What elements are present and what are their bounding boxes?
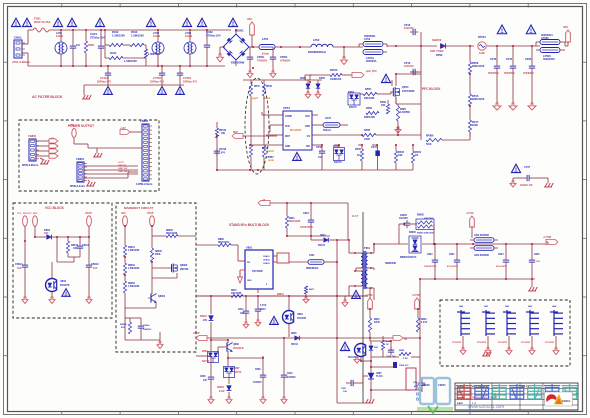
svg-text:ZDP1: ZDP1 xyxy=(300,77,307,80)
svg-text:RP06: RP06 xyxy=(366,107,373,110)
svg-text:9.1W: 9.1W xyxy=(219,391,225,393)
fuse FS01 xyxy=(33,17,50,33)
transformer pin marks xyxy=(348,239,372,289)
mosfet Q8060 xyxy=(152,263,189,278)
svg-text:ZD802: ZD802 xyxy=(217,387,225,389)
svg-text:RP08: RP08 xyxy=(364,129,371,132)
ground rake Ycap xyxy=(544,178,553,187)
snubber C8065 xyxy=(399,215,417,244)
svg-text:+12V: +12V xyxy=(120,127,126,130)
comb label 1 xyxy=(452,342,461,344)
svg-text:220R: 220R xyxy=(374,322,380,324)
svg-text:250Vac-471: 250Vac-471 xyxy=(150,79,165,83)
svg-text:UP01: UP01 xyxy=(283,106,290,110)
ground rake mid xyxy=(93,148,102,157)
comb component HS5 xyxy=(550,305,563,336)
capacitor C831 xyxy=(341,376,363,393)
capacitor CB019 xyxy=(86,237,99,297)
wire loop near C833 xyxy=(406,368,416,390)
diode D8065 xyxy=(400,232,421,259)
ground arrow PFC mid xyxy=(341,47,348,65)
earth triangle P2 xyxy=(526,25,536,34)
svg-text:4.7UF: 4.7UF xyxy=(260,304,267,307)
zener ZDP1 xyxy=(300,77,311,98)
resistor RP22 xyxy=(394,145,404,170)
watermark book logo xyxy=(416,378,453,413)
svg-text:CHA02: CHA02 xyxy=(263,258,270,261)
inductor LP04 upper xyxy=(359,42,383,48)
resistor RP03 xyxy=(249,145,275,157)
svg-text:R820: R820 xyxy=(374,319,380,321)
svg-text:RP0B8: RP0B8 xyxy=(426,136,434,138)
svg-text:FR104: FR104 xyxy=(291,343,299,346)
svg-text:C820: C820 xyxy=(427,254,433,256)
ground rake CN800 xyxy=(40,158,49,164)
svg-text:DP02: DP02 xyxy=(436,53,443,57)
svg-text:C831: C831 xyxy=(341,388,347,390)
svg-text:PC817B: PC817B xyxy=(297,317,306,320)
capacitor C821 xyxy=(447,244,460,279)
IC U801 stubs xyxy=(238,245,277,293)
svg-text:C813: C813 xyxy=(260,309,266,311)
red oval VCC_PRI xyxy=(17,213,38,226)
svg-text:1.5M/120B: 1.5M/120B xyxy=(128,286,140,288)
svg-text:6PIN-2.0mm: 6PIN-2.0mm xyxy=(70,184,86,188)
svg-text:VCCP: VCCP xyxy=(193,332,200,335)
capacitor C813 xyxy=(255,296,267,326)
ground arrow b3 xyxy=(260,397,266,404)
svg-text:24V: 24V xyxy=(203,319,208,322)
thermistor RT001 xyxy=(478,35,540,55)
op IC UP01 xyxy=(283,106,312,150)
zener ZD801 xyxy=(200,296,213,340)
capacitor CB014 xyxy=(15,241,28,297)
svg-text:CHA03: CHA03 xyxy=(263,262,270,265)
svg-text:910K: 910K xyxy=(472,124,478,127)
inductor LP05 upper xyxy=(536,40,560,47)
resistor R015 xyxy=(123,45,160,66)
wire bottom net xyxy=(196,338,420,366)
svg-text:SMA/120B: SMA/120B xyxy=(166,232,178,235)
svg-text:CP13: CP13 xyxy=(490,58,497,61)
resistor R823 xyxy=(416,309,427,332)
wire VCC node xyxy=(25,226,89,262)
resistor RP20 xyxy=(355,145,364,170)
earth triangle below CY2 xyxy=(158,85,167,94)
resistor R001 xyxy=(84,30,94,66)
svg-text:+5V: +5V xyxy=(50,138,54,140)
resistor R820 xyxy=(368,309,380,341)
svg-text:10um: 10um xyxy=(262,52,270,56)
warning triangle UP01 xyxy=(293,152,302,160)
svg-text:R823: R823 xyxy=(421,319,427,321)
wire mainbout mid xyxy=(125,302,156,330)
svg-text:+B: +B xyxy=(262,199,265,202)
svg-text:D806: D806 xyxy=(202,351,208,353)
capacitor CP01 xyxy=(247,47,268,78)
ground arrow VCC1 xyxy=(22,297,28,304)
svg-text:VCC_PRI VCC_SEC: VCC_PRI VCC_SEC xyxy=(17,213,38,215)
capacitor C823 xyxy=(496,244,509,279)
svg-text:LP005: LP005 xyxy=(541,36,549,40)
svg-text:R013: R013 xyxy=(131,30,138,34)
svg-text:CP002: CP002 xyxy=(280,56,288,59)
resistor RP09 xyxy=(380,100,390,114)
TL431 U805 xyxy=(363,360,383,397)
svg-text:T801: T801 xyxy=(364,246,370,250)
warning triangle U803 xyxy=(270,316,279,324)
ground arrow b2 xyxy=(226,397,232,404)
svg-text:QP04: QP04 xyxy=(402,86,409,89)
svg-text:104/50V: 104/50V xyxy=(287,376,296,379)
IC UP01 pin stubs xyxy=(277,115,318,145)
svg-text:SMA/1206: SMA/1206 xyxy=(218,241,230,244)
net flag VCCP left xyxy=(193,332,207,341)
ground bent arrow U801 xyxy=(238,270,243,283)
resistor RP08 xyxy=(468,46,484,74)
earth triangle T8 xyxy=(197,18,206,26)
diode D801 xyxy=(35,226,57,239)
capacitor CY007 xyxy=(513,166,548,187)
svg-text:6PIN-2.96mm: 6PIN-2.96mm xyxy=(22,163,39,167)
svg-text:CP018: CP018 xyxy=(219,149,227,151)
svg-text:CX: CX xyxy=(76,43,80,47)
ground arrow comb 3 xyxy=(506,336,512,355)
svg-text:C8012: C8012 xyxy=(82,244,90,247)
svg-text:D805: D805 xyxy=(291,333,297,335)
resistor R824 xyxy=(381,336,391,354)
svg-text:474/630V: 474/630V xyxy=(280,60,291,63)
svg-text:2.2K: 2.2K xyxy=(403,358,408,360)
svg-text:D803: D803 xyxy=(320,235,326,237)
text AC FILTER BLOCK xyxy=(32,95,63,99)
svg-text:R8061: R8061 xyxy=(128,247,135,249)
net flag VAC right xyxy=(560,25,570,50)
svg-text:275Vac-224: 275Vac-224 xyxy=(90,35,106,39)
svg-text:R012: R012 xyxy=(112,30,119,34)
snubber R8065 R8066 xyxy=(416,215,434,245)
wire IC left leads xyxy=(250,112,277,145)
warning triangle fb xyxy=(340,342,349,350)
svg-text:222/AC-CD: 222/AC-CD xyxy=(520,184,533,187)
svg-text:CP11: CP11 xyxy=(371,146,378,149)
inductor LP05 lower xyxy=(536,33,560,61)
resistor R815 xyxy=(196,290,368,298)
resistor RP010 xyxy=(310,69,342,81)
svg-text:ZCD: ZCD xyxy=(285,126,290,128)
capacitor C833 xyxy=(413,378,425,392)
earth triangle below CY3 xyxy=(176,85,185,94)
svg-text:360K: 360K xyxy=(155,254,161,256)
svg-text:STAND BYs MULTI BLOCK: STAND BYs MULTI BLOCK xyxy=(229,223,270,227)
IC U801 TNY266 xyxy=(245,246,273,290)
capacitor C810 xyxy=(281,356,296,397)
svg-text:C812: C812 xyxy=(238,309,244,311)
svg-text:2.4UF: 2.4UF xyxy=(421,321,428,324)
bridge rectifier BD001 xyxy=(223,29,254,67)
svg-text:FR104: FR104 xyxy=(318,244,326,247)
svg-text:1UF: 1UF xyxy=(17,267,22,270)
svg-text:+5.TVA: +5.TVA xyxy=(466,212,474,215)
capacitor CP02 xyxy=(270,47,291,78)
logo KONKA xyxy=(545,392,573,406)
svg-text:960K/1206: 960K/1206 xyxy=(472,65,485,68)
svg-text:15mH: 15mH xyxy=(153,34,160,38)
resistor RP016 xyxy=(215,122,226,170)
inductor LP04 lower xyxy=(363,34,387,63)
transformer primary winding xyxy=(337,240,363,296)
svg-text:1000UF/25V: 1000UF/25V xyxy=(424,266,437,268)
text PFC BLOCK xyxy=(422,87,441,91)
svg-text:FB: FB xyxy=(404,339,407,341)
capacitor CX03 xyxy=(204,30,221,66)
svg-text:VAC: VAC xyxy=(121,212,126,215)
svg-text:VCCP: VCCP xyxy=(147,212,154,215)
svg-text:14PIN-2.0mm: 14PIN-2.0mm xyxy=(136,182,153,186)
svg-text:RP20: RP20 xyxy=(355,148,362,151)
svg-text:MC33262: MC33262 xyxy=(290,128,302,132)
svg-text:CP18: CP18 xyxy=(316,146,323,149)
svg-text:D807: D807 xyxy=(234,368,240,370)
common-mode choke LF01 xyxy=(55,30,67,66)
wire AC top rail xyxy=(22,30,231,44)
svg-text:K4T/F960B: K4T/F960B xyxy=(402,90,415,93)
capacitor CP018 xyxy=(214,148,227,156)
resistor RP24 xyxy=(411,145,421,170)
svg-text:104/50V: 104/50V xyxy=(143,328,152,331)
svg-text:10K: 10K xyxy=(240,313,245,315)
svg-text:20R/120B: 20R/120B xyxy=(364,98,375,100)
wire diode rail xyxy=(374,244,443,250)
resistor RP17 xyxy=(468,106,478,137)
svg-text:3.3R: 3.3R xyxy=(479,51,485,55)
svg-text:102/1KV: 102/1KV xyxy=(399,218,408,220)
ground arrow VCC2 xyxy=(49,297,55,304)
svg-text:CN800: CN800 xyxy=(28,134,37,138)
svg-text:+5.TVB: +5.TVB xyxy=(412,295,420,297)
resistor R8010 xyxy=(66,237,78,257)
comb label 3 xyxy=(498,342,507,344)
resistor RP06 xyxy=(364,107,379,119)
resistor R012 xyxy=(105,30,123,47)
svg-text:C830 104: C830 104 xyxy=(386,355,396,358)
svg-text:GND 12V: GND 12V xyxy=(118,168,128,170)
svg-text:R815: R815 xyxy=(231,290,237,292)
svg-text:2N7002: 2N7002 xyxy=(180,268,189,271)
capacitor C812 xyxy=(238,296,249,328)
svg-text:ZD801: ZD801 xyxy=(200,316,208,318)
connector CN800 xyxy=(22,134,39,167)
ground arrow CP14 xyxy=(509,103,517,110)
svg-text:STV/STM: STV/STM xyxy=(521,342,530,344)
svg-text:RT001: RT001 xyxy=(478,35,486,39)
capacitor CY002 xyxy=(150,66,165,84)
svg-text:Q8061: Q8061 xyxy=(158,295,166,298)
svg-text:R014: R014 xyxy=(110,51,117,55)
svg-text:100UF/400V: 100UF/400V xyxy=(300,226,313,229)
svg-text:BAV70: BAV70 xyxy=(334,161,342,164)
dual diode D807 xyxy=(224,367,242,378)
common-mode choke LF02 xyxy=(152,30,164,66)
diode D812 xyxy=(369,341,379,360)
svg-text:C808: C808 xyxy=(200,376,206,378)
svg-text:RP07: RP07 xyxy=(254,86,260,88)
svg-text:RCP: RCP xyxy=(233,132,238,134)
wire +B rail xyxy=(270,203,348,240)
svg-text:MBR20100CTG: MBR20100CTG xyxy=(400,257,417,259)
svg-text:L801: L801 xyxy=(309,254,315,257)
connector CN01 xyxy=(12,36,30,65)
svg-text:Q802: Q802 xyxy=(233,343,240,346)
comb label 2 xyxy=(477,342,486,344)
svg-text:GND 5V: GND 5V xyxy=(118,165,127,167)
resistor R013 xyxy=(123,43,144,46)
svg-text:10V/24V: 10V/24V xyxy=(404,65,414,68)
comb component HS3 xyxy=(503,306,516,336)
svg-text:R8065: R8065 xyxy=(155,251,162,253)
svg-text:CN802: CN802 xyxy=(140,119,149,123)
resistor RP02 xyxy=(262,80,272,100)
svg-text:C804: C804 xyxy=(303,212,309,215)
text STANDBY xyxy=(229,223,270,227)
red oval VCCP xyxy=(85,212,92,226)
transistor Q8061 xyxy=(148,292,166,303)
ground arrow CP00 xyxy=(528,103,536,110)
svg-text:R8062: R8062 xyxy=(128,265,135,267)
capacitor CP18 xyxy=(316,145,325,170)
isolation boundary line xyxy=(352,212,363,403)
ellipse highlight xyxy=(245,78,269,174)
svg-text:PC817B: PC817B xyxy=(60,284,70,287)
svg-text:VCC BLOCK: VCC BLOCK xyxy=(45,206,65,210)
svg-text:CB019: CB019 xyxy=(91,263,99,266)
capacitor CY003 xyxy=(177,66,198,84)
svg-text:2SC9014L: 2SC9014L xyxy=(233,347,245,350)
earth triangle T3 xyxy=(53,18,62,26)
warning triangle xfmr xyxy=(352,290,361,298)
svg-text:BAV70: BAV70 xyxy=(349,106,357,109)
capacitor C804 xyxy=(300,203,314,236)
resistor R825 xyxy=(399,350,411,360)
resistor R8062 xyxy=(123,257,139,275)
svg-text:C836 N.C: C836 N.C xyxy=(399,365,409,367)
comb component HS1 xyxy=(457,306,470,336)
capacitor C806 red xyxy=(277,253,308,296)
svg-text:1.5M/120B: 1.5M/120B xyxy=(128,268,140,270)
earth triangle T6 xyxy=(146,18,155,26)
inductor L801 xyxy=(306,254,337,270)
capacitor C8012 xyxy=(68,237,90,257)
ground arrow b4 xyxy=(281,397,287,404)
dashed block cap bank xyxy=(440,300,570,366)
svg-text:GND: GND xyxy=(285,146,290,148)
ground rake sec xyxy=(528,279,537,291)
svg-text:VCC: VCC xyxy=(305,116,310,118)
svg-text:KBP206W: KBP206W xyxy=(231,61,245,65)
svg-text:ebasttz: ebasttz xyxy=(266,150,275,153)
resistor R8063 xyxy=(123,275,139,320)
svg-text:N.C: N.C xyxy=(357,154,361,157)
svg-text:CN01: CN01 xyxy=(14,36,22,40)
warning triangle PFC xyxy=(381,74,390,82)
ground rake comb xyxy=(482,352,491,356)
capacitor CP14 xyxy=(504,46,516,103)
wire right fb rail xyxy=(419,279,421,378)
svg-text:CY001: CY001 xyxy=(100,76,108,80)
diode D803 xyxy=(311,235,337,247)
svg-text:+CN: +CN xyxy=(69,124,74,127)
ground arrow fb xyxy=(354,357,360,363)
text net list xyxy=(118,162,131,173)
svg-text:1.5M/1206: 1.5M/1206 xyxy=(124,59,137,63)
wire primary gnd rail xyxy=(216,169,317,171)
svg-text:564/450V: 564/450V xyxy=(504,72,515,75)
inductor L802 xyxy=(474,235,494,242)
ground arrow xfmr xyxy=(342,296,348,307)
svg-text:10K: 10K xyxy=(381,104,386,107)
svg-text:60R/120B: 60R/120B xyxy=(364,116,375,119)
optocoupler U804 xyxy=(348,344,366,359)
svg-text:R824: R824 xyxy=(385,340,391,343)
net flag +B xyxy=(258,199,270,206)
svg-text:250V-T3.15A: 250V-T3.15A xyxy=(34,20,50,24)
svg-text:U803: U803 xyxy=(297,313,303,316)
svg-text:100R/1206: 100R/1206 xyxy=(330,79,342,81)
capacitor C830 xyxy=(386,347,396,358)
svg-text:1N4: 1N4 xyxy=(44,232,49,235)
earth triangle T7 xyxy=(182,18,191,26)
capacitor C825 xyxy=(529,244,541,279)
ground rake fb bottom xyxy=(365,397,374,403)
svg-text:STV/STM: STV/STM xyxy=(545,342,554,344)
svg-text:R808: R808 xyxy=(218,238,224,241)
resistor RP05 gate xyxy=(360,88,391,100)
svg-text:U802: U802 xyxy=(60,280,67,283)
svg-text:100R: 100R xyxy=(364,138,370,141)
svg-text:474/630V: 474/630V xyxy=(257,60,268,63)
diode DP01 xyxy=(430,38,448,57)
net flag +5.TVB up2 xyxy=(412,295,420,309)
svg-text:VAC: VAC xyxy=(563,25,568,29)
capacitor C820 xyxy=(424,244,438,279)
resistor R811 xyxy=(285,203,300,236)
wire AC bottom rail xyxy=(22,53,225,66)
diode DP05 xyxy=(315,77,325,98)
wire r-c join xyxy=(57,257,74,262)
wire snubber rail xyxy=(287,235,330,237)
wire zener rail xyxy=(303,75,322,80)
svg-text:eGG_PFC: eGG_PFC xyxy=(366,71,377,73)
zener ZD802 xyxy=(217,378,231,397)
svg-text:1.5M/1206: 1.5M/1206 xyxy=(148,53,160,56)
svg-text:15mH: 15mH xyxy=(185,34,192,38)
svg-text:BROWN280uH: BROWN280uH xyxy=(308,50,326,54)
svg-text:+5.TVA: +5.TVA xyxy=(365,294,373,297)
connector CN802 xyxy=(136,119,153,186)
svg-text:STV/STM: STV/STM xyxy=(477,342,486,344)
resistor R8060 xyxy=(152,230,196,238)
svg-text:SB3150: SB3150 xyxy=(432,38,442,42)
ground arrow mainbout xyxy=(157,340,163,349)
svg-text:470uF/25V: 470uF/25V xyxy=(447,265,458,268)
wire PFC bulk rail xyxy=(396,46,421,135)
ground arrow comb 2 xyxy=(485,336,491,355)
inductor L803 xyxy=(470,240,498,257)
svg-text:275Vac-224: 275Vac-224 xyxy=(206,33,221,37)
net flags CN800 xyxy=(36,138,58,158)
svg-text:CP00: CP00 xyxy=(525,58,532,61)
capacitor CX02 xyxy=(90,30,106,66)
